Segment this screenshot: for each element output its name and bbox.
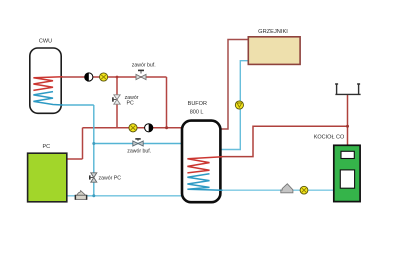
svg-text:KOCIOŁ CO: KOCIOŁ CO xyxy=(314,135,345,141)
wire: PC to BUFOR red horizontal xyxy=(83,127,183,129)
BUFOR coil blue xyxy=(187,174,222,190)
wire: CWU cold blue horizontal xyxy=(60,104,94,106)
BUFOR coil red xyxy=(187,157,222,173)
CWU heating coil red xyxy=(33,77,62,91)
valve Y3 yellow radiator return xyxy=(235,101,243,109)
wire: PC riser red xyxy=(82,128,84,159)
boiler window top xyxy=(341,151,354,158)
node: junction blue bottom xyxy=(92,194,95,197)
valve B zawor PC vertical xyxy=(113,95,120,104)
filter F1 xyxy=(75,191,88,200)
node: junction blue mid xyxy=(92,142,95,145)
radiator GRZEJNIKI xyxy=(248,37,300,65)
wire: blue to BUFOR left xyxy=(94,143,183,145)
svg-text:BUFOR: BUFOR xyxy=(188,101,207,107)
node: junction red buffer inlet xyxy=(165,126,168,129)
CWU cold coil blue xyxy=(33,92,62,105)
heat pump PC xyxy=(28,153,67,202)
tank BUFOR xyxy=(182,121,220,203)
boiler door xyxy=(340,170,354,188)
wire: PC outlet red xyxy=(66,158,83,160)
svg-text:GRZEJNIKI: GRZEJNIKI xyxy=(258,29,288,35)
filter F2 xyxy=(281,184,293,193)
valve A zawor buf top xyxy=(136,70,146,79)
wire: red branch through zawor PC xyxy=(116,77,118,128)
svg-text:zawór buf.: zawór buf. xyxy=(127,148,151,154)
pump P1 xyxy=(85,73,93,81)
svg-text:zawór buf.: zawór buf. xyxy=(132,63,156,69)
wire: red vertical down to buffer line xyxy=(166,77,168,128)
wire: CWU supply red horizontal xyxy=(60,76,167,78)
wire: PC bottom blue xyxy=(66,195,183,197)
svg-text:PC: PC xyxy=(126,101,133,107)
wire: blue vertical CWU down xyxy=(93,105,95,196)
wire: boiler riser red to expansion tank xyxy=(347,95,349,146)
valve Y1 yellow xyxy=(100,73,108,81)
valve Y2 yellow xyxy=(129,124,137,132)
wire: BUFOR to radiator supply red xyxy=(220,40,249,130)
wire: BUFOR to boiler blue return xyxy=(220,189,335,191)
valve D zawor PC bottom vertical xyxy=(90,173,97,182)
svg-text:800 L: 800 L xyxy=(190,110,204,116)
valve Y4 yellow boiler return xyxy=(300,186,308,194)
valve C zawor buf bottom xyxy=(133,139,143,146)
svg-text:zawór PC: zawór PC xyxy=(99,175,122,181)
node: junction red branch top xyxy=(116,76,119,79)
wire: radiator return blue xyxy=(220,61,249,150)
boiler KOCIOL CO xyxy=(334,145,360,201)
pump P2 xyxy=(145,124,153,132)
svg-text:CWU: CWU xyxy=(39,39,52,45)
tank CWU xyxy=(30,48,61,113)
svg-text:PC: PC xyxy=(42,144,50,150)
expansion tank xyxy=(335,84,361,94)
node: junction boiler red xyxy=(346,125,349,128)
wire: boiler supply red from BUFOR coil xyxy=(220,126,348,156)
